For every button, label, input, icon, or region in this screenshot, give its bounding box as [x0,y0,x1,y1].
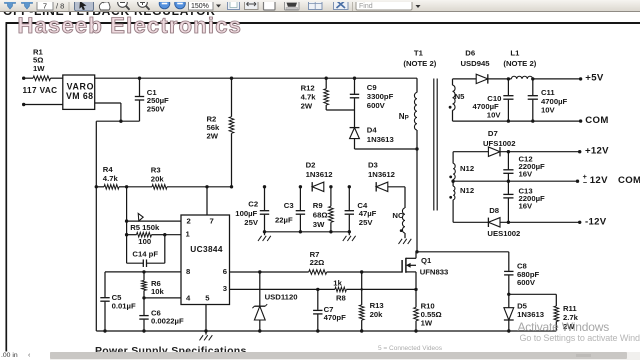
svg-text:USD945: USD945 [461,59,491,68]
svg-text:1k: 1k [333,279,342,288]
svg-text:20k: 20k [151,174,165,183]
svg-text:D3: D3 [368,160,378,169]
svg-text:4: 4 [186,293,191,302]
svg-text:COM: COM [585,115,609,126]
svg-text:6: 6 [223,267,227,276]
svg-text:0.01µF: 0.01µF [112,301,136,310]
svg-text:R12: R12 [301,84,315,93]
svg-text:(NOTE 2): (NOTE 2) [503,59,536,68]
svg-text:2: 2 [187,216,191,225]
svg-text:22Ω: 22Ω [310,258,325,267]
svg-text:8: 8 [186,267,191,276]
svg-text:D8: D8 [489,206,500,215]
svg-text:2W: 2W [301,102,313,111]
svg-text:22µF: 22µF [275,216,293,225]
svg-text:4.7k: 4.7k [301,93,317,102]
svg-text:Find: Find [359,3,373,10]
svg-text:1N3612: 1N3612 [306,170,333,179]
svg-text:D4: D4 [367,126,378,135]
svg-text:7: 7 [43,2,47,11]
svg-text:UES1002: UES1002 [487,229,520,238]
svg-text:3: 3 [223,284,227,293]
svg-text:1W: 1W [421,319,433,328]
svg-text:10V: 10V [487,110,502,119]
svg-text:C3: C3 [284,201,294,210]
svg-text:100: 100 [138,237,151,246]
svg-text:D7: D7 [488,129,498,138]
svg-text:16V: 16V [519,170,534,179]
svg-text:+12V: +12V [585,146,609,157]
svg-text:600V: 600V [517,278,536,287]
svg-text:-12V: -12V [585,216,607,227]
svg-text:C2: C2 [248,200,258,209]
svg-text:470pF: 470pF [324,313,347,322]
svg-text:4.7k: 4.7k [103,174,119,183]
svg-text:L1: L1 [510,49,520,58]
svg-text:UFN833: UFN833 [420,267,449,276]
svg-text:100µF: 100µF [235,209,257,218]
svg-text:VM 68: VM 68 [66,91,93,101]
svg-text:D2: D2 [306,160,316,169]
svg-text:UFS1002: UFS1002 [483,139,515,148]
svg-text:C9: C9 [367,83,377,92]
svg-text:D6: D6 [465,49,475,58]
svg-text:47µF: 47µF [359,209,377,218]
svg-text:600V: 600V [367,101,386,110]
svg-text:117 VAC: 117 VAC [23,86,58,95]
svg-text:7: 7 [210,216,214,225]
svg-text:R13: R13 [370,301,384,310]
svg-text:N12: N12 [460,186,474,195]
svg-text:−: − [583,178,587,187]
svg-text:25V: 25V [244,218,259,227]
svg-text:1W: 1W [33,64,45,73]
svg-text:R3: R3 [151,166,161,175]
svg-text:+5V: +5V [585,73,604,84]
svg-text:NC: NC [392,211,404,220]
svg-text:C11: C11 [541,88,555,97]
svg-text:/ 8: / 8 [56,2,64,11]
svg-text:1N3613: 1N3613 [517,310,544,319]
svg-text:5: 5 [205,293,210,302]
svg-text:T1: T1 [414,49,424,58]
svg-text:1: 1 [186,229,191,238]
svg-text:COM: COM [618,175,640,186]
svg-text:250V: 250V [147,105,166,114]
svg-text:12V: 12V [590,175,608,186]
svg-text:R5 150k: R5 150k [130,223,160,232]
svg-text:R11: R11 [563,304,577,313]
svg-text:USD1120: USD1120 [265,292,298,301]
svg-text:25V: 25V [359,218,374,227]
svg-text:1N3613: 1N3613 [367,135,394,144]
svg-text:10k: 10k [151,287,165,296]
svg-text:Q1: Q1 [421,256,432,265]
svg-text:2W: 2W [207,132,219,141]
svg-text:20k: 20k [370,310,384,319]
svg-text:10V: 10V [541,105,556,114]
svg-text:NP: NP [399,112,409,122]
svg-text:N5: N5 [455,92,466,101]
svg-text:R8: R8 [336,293,347,302]
svg-text:150%: 150% [191,3,209,10]
svg-text:0.0022µF: 0.0022µF [151,317,184,326]
svg-text:UC3844: UC3844 [190,244,223,254]
svg-text:R4: R4 [103,165,114,174]
svg-text:1N3612: 1N3612 [368,170,395,179]
svg-text:R9: R9 [313,201,323,210]
svg-text:68Ω: 68Ω [313,211,328,220]
svg-text:16V: 16V [519,202,534,211]
svg-text:N12: N12 [460,164,474,173]
svg-text:C14 pF: C14 pF [132,250,158,259]
svg-text:3300pF: 3300pF [367,92,394,101]
svg-text:(NOTE 2): (NOTE 2) [403,59,436,68]
svg-text:3W: 3W [313,220,325,229]
